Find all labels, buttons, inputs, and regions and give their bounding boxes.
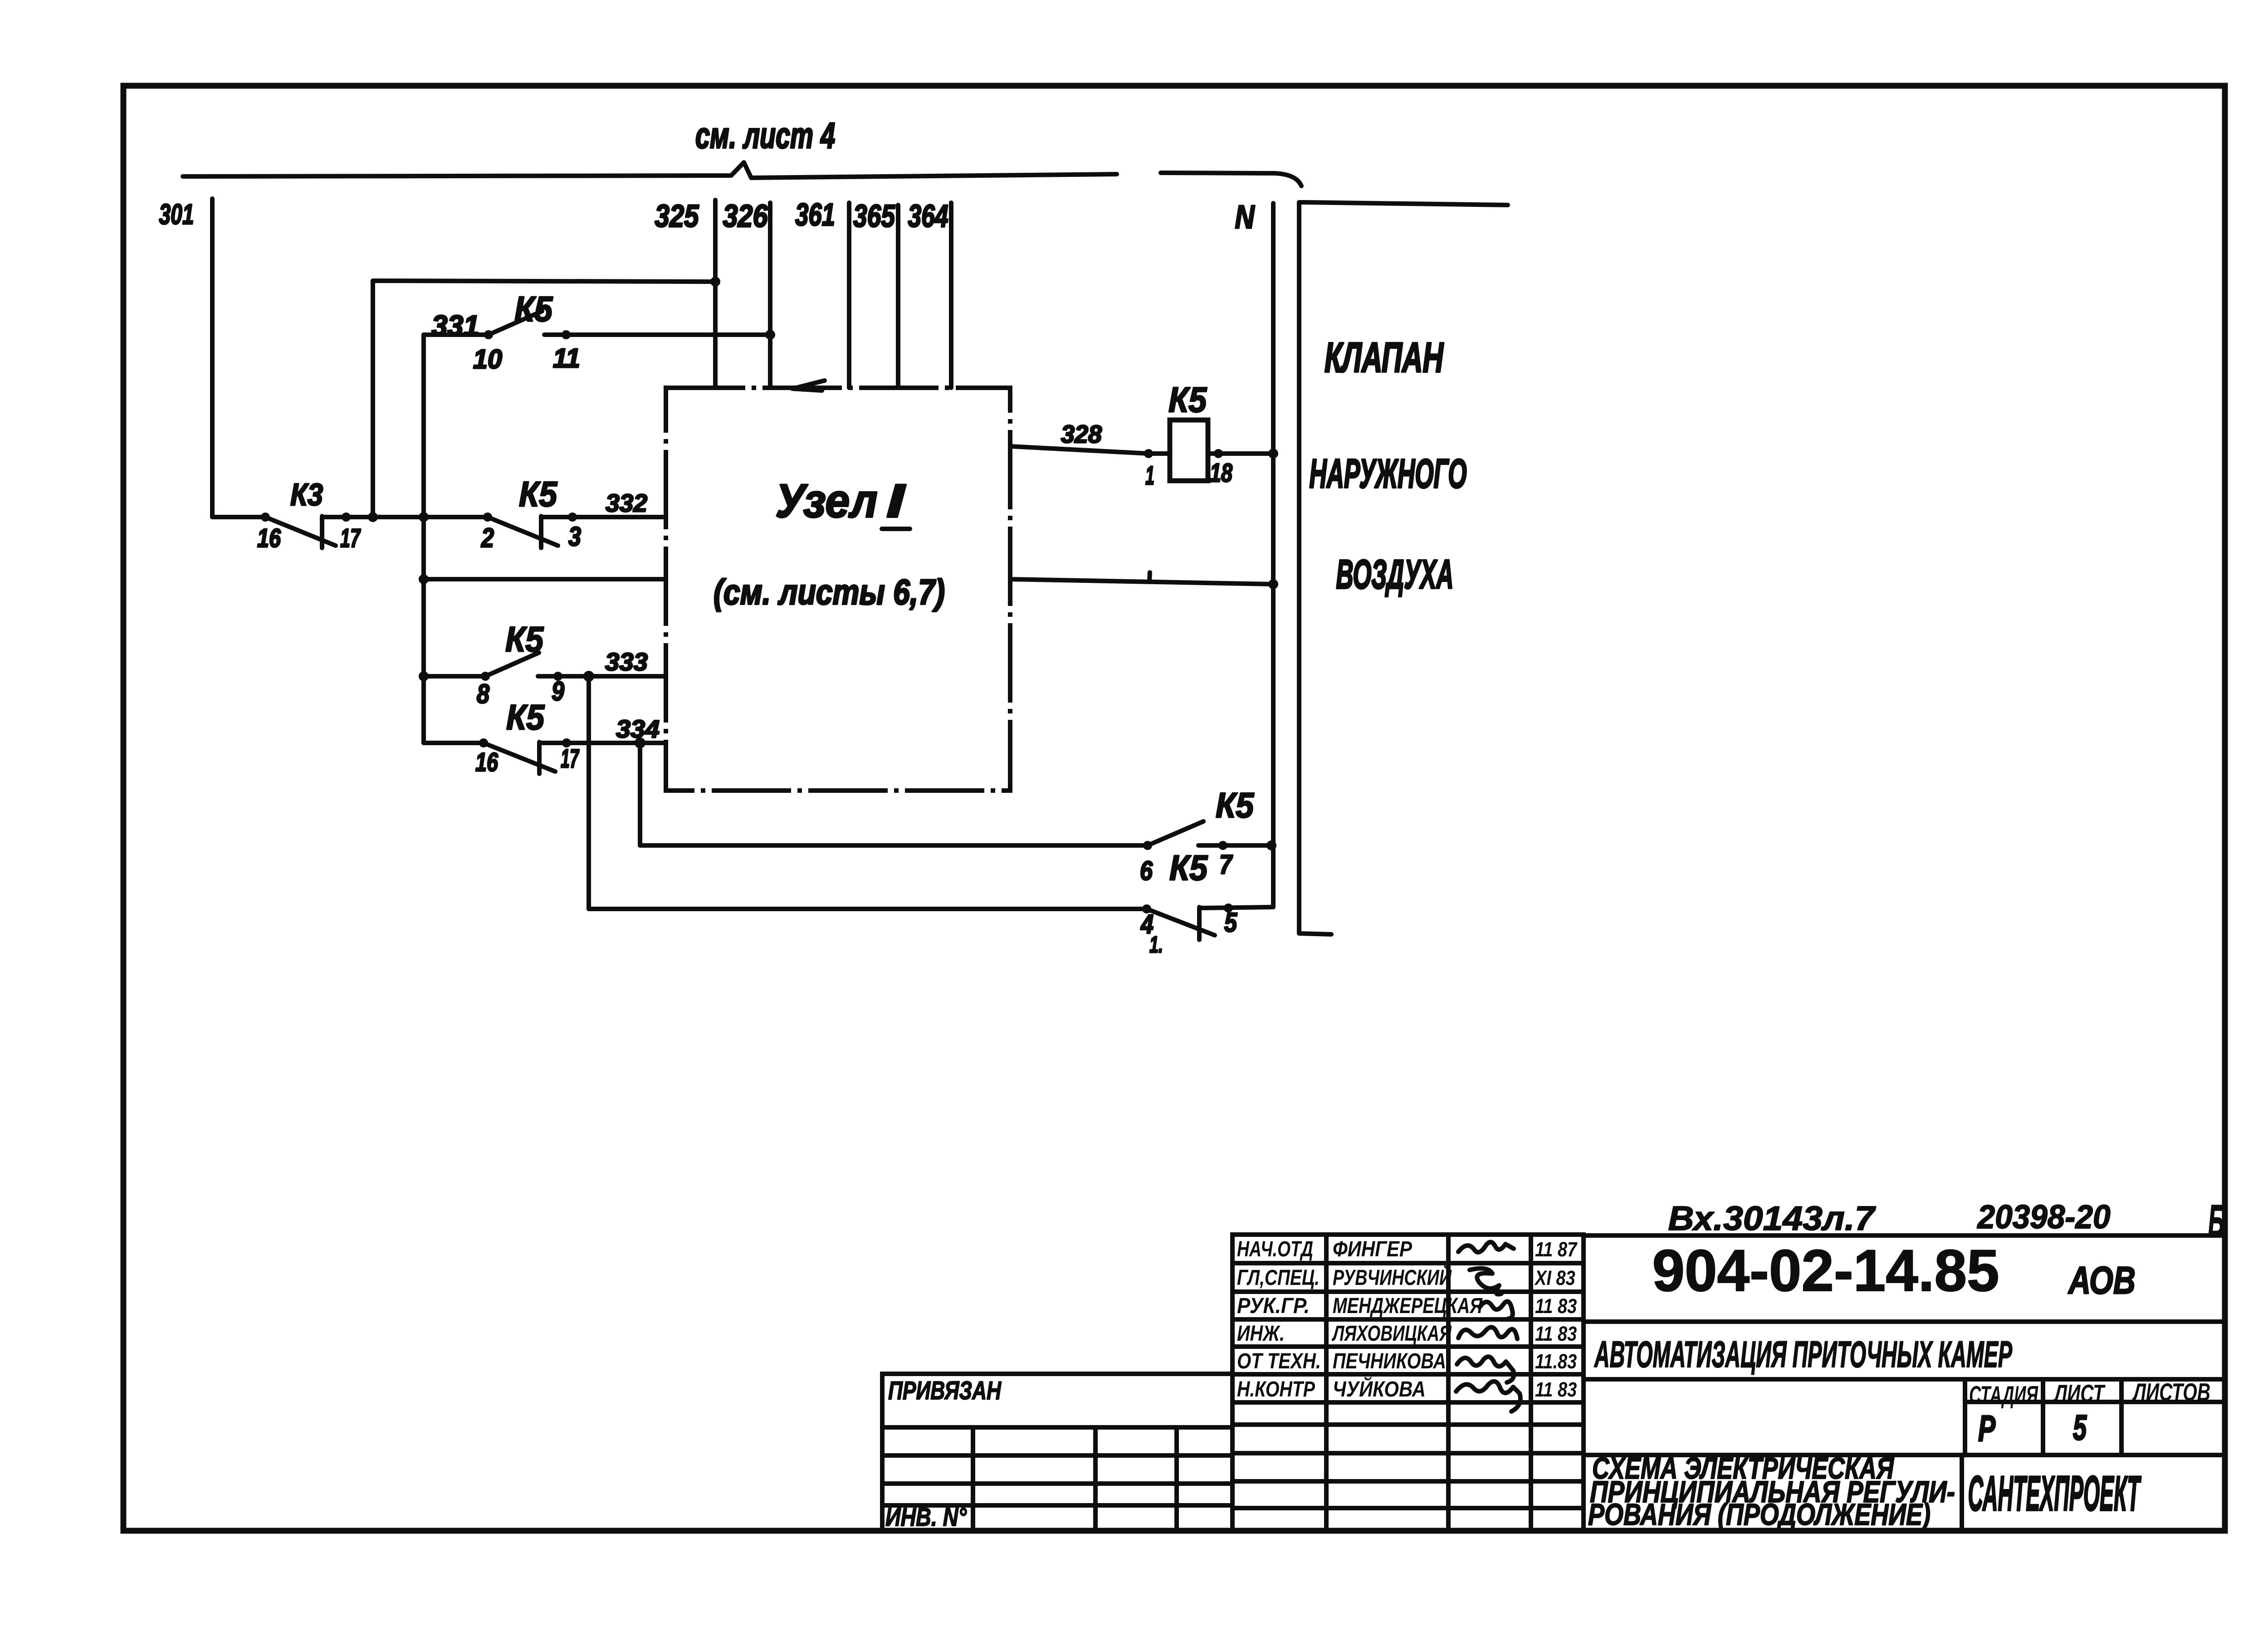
- pin 18 dot: [1214, 449, 1223, 458]
- svg-text:ЛИСТ: ЛИСТ: [2053, 1380, 2106, 1408]
- svg-text:325: 325: [655, 198, 699, 234]
- contact K5 6-7 (NO): [1143, 821, 1227, 850]
- svg-text:НАЧ.ОТД: НАЧ.ОТД: [1237, 1237, 1313, 1261]
- wire row 332 from 301: [212, 515, 265, 519]
- svg-text:328: 328: [1061, 420, 1102, 449]
- wire bus 326: [768, 203, 772, 388]
- svg-text:САНТЕХПРОЕКТ: САНТЕХПРОЕКТ: [1968, 1465, 2141, 1521]
- svg-text:ЛИСТОВ: ЛИСТОВ: [2132, 1379, 2210, 1406]
- pin 5: [1224, 907, 1237, 938]
- wire row 334 left: [424, 741, 484, 745]
- label naruzhnogo: [1310, 451, 1467, 497]
- title block main boxes grid: [1584, 1235, 2224, 1530]
- value sheet 5: [2073, 1408, 2087, 1448]
- note see sheet 4: [695, 115, 835, 156]
- svg-text:11 83: 11 83: [1535, 1294, 1577, 1318]
- svg-text:XI 83: XI 83: [1534, 1266, 1575, 1289]
- wire bus 364: [949, 203, 953, 388]
- sig row 2 title: [1237, 1266, 1320, 1290]
- node N: [1235, 199, 1255, 235]
- wire sheet-4 reference line (left segment with break mark): [183, 162, 1117, 178]
- contact K5 8-9 (NO): [481, 653, 562, 681]
- wire 328 from box: [1010, 446, 1149, 454]
- pin 17 (row 334): [561, 744, 580, 773]
- sig row 3 title: [1237, 1294, 1310, 1318]
- contact K5 10-11 (NO): [484, 311, 571, 339]
- svg-text:ФИНГЕР: ФИНГЕР: [1333, 1237, 1413, 1261]
- contact K5 4-5 (NC): [1142, 903, 1233, 940]
- svg-text:365: 365: [853, 198, 895, 234]
- svg-text:АОВ: АОВ: [2068, 1259, 2136, 1302]
- svg-text:РУК.ГР.: РУК.ГР.: [1237, 1294, 1310, 1318]
- svg-text:N: N: [1235, 199, 1255, 235]
- node 326: [723, 198, 768, 234]
- svg-text:17: 17: [340, 524, 361, 553]
- svg-text:ВОЗДУХА: ВОЗДУХА: [1336, 552, 1454, 597]
- pin 2: [481, 522, 494, 553]
- svg-text:333: 333: [605, 648, 648, 676]
- svg-text:ПЕЧНИКОВА: ПЕЧНИКОВА: [1333, 1349, 1446, 1373]
- label K5 (contact 10-11): [514, 289, 553, 328]
- svg-text:2: 2: [481, 522, 494, 553]
- svg-text:17: 17: [561, 744, 580, 773]
- label K5 (contact 6-7): [1216, 785, 1254, 825]
- pin 17: [340, 524, 361, 553]
- label K5 (contact 4-5): [1169, 848, 1208, 887]
- wire sheet-4 reference line (right segment with hook): [1161, 173, 1301, 186]
- pin 10: [473, 344, 502, 374]
- junction 333 rail C: [583, 671, 594, 682]
- svg-text:332: 332: [606, 489, 647, 518]
- junction 331 on bus 326: [765, 330, 775, 340]
- label Klapan: [1325, 334, 1444, 381]
- svg-text:НАРУЖНОГО: НАРУЖНОГО: [1310, 451, 1467, 497]
- pin 11: [553, 343, 580, 373]
- svg-text:16: 16: [257, 524, 281, 553]
- svg-text:20398-20: 20398-20: [1977, 1198, 2110, 1235]
- sig row 5 date: [1535, 1350, 1577, 1373]
- pin 3: [568, 521, 581, 552]
- svg-text:КЛАПАН: КЛАПАН: [1325, 334, 1444, 381]
- junction rail B row 332: [419, 512, 429, 522]
- wire row 4-5: [589, 907, 1147, 911]
- sig row 5 name: [1333, 1349, 1446, 1373]
- svg-text:301: 301: [159, 198, 194, 230]
- pin 16: [257, 524, 281, 553]
- label K5 (contact 16-17): [506, 697, 545, 737]
- label K3: [290, 477, 323, 512]
- signature squiggle row4: [1458, 1327, 1517, 1339]
- wire rail A to bus 325: [373, 281, 715, 517]
- sig row 4 title: [1237, 1322, 1285, 1346]
- header Listov: [2132, 1379, 2210, 1406]
- sig row 1 name: [1333, 1237, 1413, 1261]
- svg-text:РУВЧИНСКИЙ: РУВЧИНСКИЙ: [1333, 1265, 1452, 1289]
- svg-text:11: 11: [553, 343, 580, 373]
- svg-text:11 83: 11 83: [1535, 1322, 1577, 1345]
- svg-text:I: I: [886, 474, 906, 527]
- wire bus 365: [896, 205, 900, 388]
- wire row2 left: [424, 577, 666, 581]
- stray mark 1.: [1149, 932, 1163, 958]
- contact K3 16-17 (NC): [261, 513, 351, 548]
- pin 4: [1140, 909, 1154, 939]
- doc number 904-02-14.85: [1652, 1237, 1999, 1304]
- svg-text:331: 331: [432, 310, 479, 342]
- label K5 (contact 8-9): [505, 619, 544, 659]
- stray tick on row2 wire: [1149, 572, 1150, 581]
- svg-text:7: 7: [1219, 849, 1233, 879]
- label Uzel: [776, 474, 878, 527]
- title block signature table grid: [1232, 1235, 1584, 1530]
- svg-text:К5: К5: [519, 474, 557, 513]
- title block left table grid: [882, 1374, 2224, 1530]
- svg-text:904-02-14.85: 904-02-14.85: [1652, 1237, 1999, 1304]
- signature squiggle row3: [1480, 1302, 1513, 1319]
- wire row 6-7: [640, 843, 1148, 848]
- svg-text:К5: К5: [514, 289, 553, 328]
- junction rail B row 333: [419, 671, 429, 681]
- wire bus 361: [847, 203, 851, 388]
- svg-text:Р: Р: [1978, 1409, 1996, 1449]
- signature squiggle row6: [1456, 1382, 1520, 1411]
- junction 6-7 on N: [1266, 840, 1276, 850]
- note B sheet mark: [2208, 1196, 2224, 1246]
- contact K5 16-17 (NC): [479, 738, 571, 774]
- svg-text:К5: К5: [1169, 848, 1208, 887]
- node 328: [1061, 420, 1102, 449]
- sig row 5 title: [1237, 1349, 1321, 1373]
- wire 333 left: [424, 674, 485, 679]
- svg-text:5: 5: [2073, 1408, 2087, 1448]
- svg-text:ЧУЙКОВА: ЧУЙКОВА: [1333, 1376, 1426, 1401]
- signature squiggle row1: [1458, 1242, 1514, 1252]
- pin 16 (row 334): [475, 748, 499, 777]
- pin 8: [477, 679, 490, 709]
- junction rail B row2: [419, 574, 429, 584]
- sig row 4 name: [1331, 1322, 1452, 1346]
- wire 4-5 to N: [1199, 907, 1271, 908]
- sig row 4 date: [1535, 1322, 1577, 1345]
- sig row 3 name: [1333, 1294, 1483, 1318]
- svg-text:364: 364: [908, 198, 948, 234]
- svg-text:Б: Б: [2208, 1196, 2224, 1246]
- svg-text:3: 3: [568, 521, 581, 552]
- label see sheets 6,7: [714, 572, 945, 611]
- sig row 2 name: [1333, 1265, 1452, 1289]
- note 20398-20: [1977, 1198, 2110, 1235]
- sig row 6 title: [1237, 1377, 1315, 1401]
- sheet title line 2: [1590, 1475, 1955, 1509]
- node 364: [908, 198, 948, 234]
- wire rail D down: [638, 743, 642, 845]
- contact K5 2-3 (NC): [483, 513, 577, 548]
- box Uzel I: [666, 388, 1010, 791]
- svg-text:16: 16: [475, 748, 499, 777]
- header List: [2053, 1380, 2106, 1408]
- pin 18: [1210, 459, 1232, 488]
- pin 7: [1219, 849, 1233, 879]
- svg-text:1: 1: [1145, 461, 1154, 490]
- wire rail C down: [587, 676, 591, 909]
- node 365: [853, 198, 895, 234]
- svg-text:Узел: Узел: [776, 474, 878, 527]
- junction rail A on bus 325: [710, 277, 720, 287]
- svg-text:11.83: 11.83: [1535, 1350, 1577, 1373]
- svg-text:ОТ ТЕХН.: ОТ ТЕХН.: [1237, 1349, 1321, 1373]
- pin 1: [1145, 461, 1154, 490]
- svg-text:9: 9: [552, 676, 564, 706]
- wire coil to N: [1208, 451, 1273, 456]
- svg-text:К5: К5: [1216, 785, 1254, 825]
- sig row 2 date: [1534, 1266, 1575, 1289]
- svg-text:К5: К5: [506, 697, 545, 737]
- pin 9: [552, 676, 564, 706]
- bracket for valve group: [1299, 202, 1508, 934]
- svg-text:361: 361: [795, 197, 835, 232]
- svg-text:10: 10: [473, 344, 502, 374]
- sig row 6 date: [1535, 1378, 1577, 1401]
- doc suffix AOV: [2068, 1259, 2136, 1302]
- svg-text:ЛЯХОВИЦКАЯ: ЛЯХОВИЦКАЯ: [1331, 1322, 1452, 1346]
- signature squiggle row2: [1470, 1268, 1501, 1294]
- wire 6-7 to N: [1198, 843, 1271, 848]
- node 361: [795, 197, 835, 232]
- project name: [1594, 1333, 2013, 1375]
- wire bus 325: [713, 200, 718, 388]
- sig row 1 date: [1535, 1238, 1578, 1261]
- svg-text:1.: 1.: [1149, 932, 1163, 958]
- svg-text:АВТОМАТИЗАЦИЯ ПРИТОЧНЫХ КАМЕР: АВТОМАТИЗАЦИЯ ПРИТОЧНЫХ КАМЕР: [1594, 1333, 2013, 1375]
- wire 333 to box: [538, 674, 666, 679]
- svg-text:(см. листы 6,7): (см. листы 6,7): [714, 572, 945, 611]
- label Inv No: [885, 1503, 967, 1532]
- label K5 (contact 2-3): [519, 474, 557, 513]
- pin 1 junction: [1144, 449, 1153, 458]
- wire 332 to box: [541, 515, 666, 519]
- svg-text:МЕНДЖЕРЕЦКАЯ: МЕНДЖЕРЕЦКАЯ: [1333, 1294, 1483, 1318]
- svg-text:6: 6: [1140, 855, 1153, 886]
- svg-text:326: 326: [723, 198, 768, 234]
- sig row 6 name: [1333, 1376, 1426, 1401]
- svg-text:ИНВ. N°: ИНВ. N°: [885, 1503, 967, 1532]
- svg-text:К5: К5: [505, 619, 544, 659]
- junction 328 on N: [1268, 449, 1278, 459]
- header Stadiya: [1969, 1382, 2038, 1409]
- wire 334 to box: [539, 741, 666, 745]
- svg-text:ПРИВЯЗАН: ПРИВЯЗАН: [888, 1376, 1002, 1405]
- wire 328 to coil: [1149, 451, 1170, 456]
- value stage P: [1978, 1409, 1996, 1449]
- node 334: [616, 715, 660, 743]
- wire 331 left: [424, 332, 489, 337]
- note Vh.30143l.7: [1668, 1200, 1877, 1238]
- node 332: [606, 489, 647, 518]
- relay coil K5: [1170, 420, 1208, 481]
- wire bus N: [1271, 203, 1276, 907]
- node 331: [432, 310, 479, 342]
- svg-text:СТАДИЯ: СТАДИЯ: [1969, 1382, 2038, 1409]
- svg-text:Н.КОНТР: Н.КОНТР: [1237, 1377, 1315, 1401]
- svg-text:11 83: 11 83: [1535, 1378, 1577, 1401]
- label vozdukha: [1336, 552, 1454, 597]
- junction rail A row 332: [368, 512, 378, 522]
- svg-text:см. лист 4: см. лист 4: [695, 115, 835, 156]
- node 325: [655, 198, 699, 234]
- svg-text:К3: К3: [290, 477, 323, 512]
- svg-text:8: 8: [477, 679, 490, 709]
- sheet title line 3: [1588, 1498, 1931, 1532]
- label K5 (coil): [1168, 380, 1207, 419]
- signature squiggle row5: [1457, 1357, 1514, 1382]
- svg-text:5: 5: [1224, 907, 1237, 938]
- wire 301 vertical: [210, 199, 215, 517]
- wire rail B vertical: [421, 335, 426, 743]
- arrow mark on box top: [792, 381, 825, 391]
- sig row 3 date: [1535, 1294, 1577, 1318]
- label Uzel roman numeral I: [886, 474, 906, 527]
- svg-text:ИНЖ.: ИНЖ.: [1237, 1322, 1285, 1346]
- node 333: [605, 648, 648, 676]
- svg-text:К5: К5: [1168, 380, 1207, 419]
- svg-text:11 87: 11 87: [1535, 1238, 1578, 1261]
- sig row 1 title: [1237, 1237, 1313, 1261]
- org SANTEHPROEKT: [1968, 1465, 2141, 1521]
- node 301: [159, 198, 194, 230]
- pin 6: [1140, 855, 1153, 886]
- wire row2 right to N: [1010, 579, 1273, 584]
- label Privyazan: [888, 1376, 1002, 1405]
- wire 331 to bus 326: [544, 332, 770, 337]
- junction row2 on N: [1268, 579, 1278, 589]
- svg-text:РОВАНИЯ (ПРОДОЛЖЕНИЕ): РОВАНИЯ (ПРОДОЛЖЕНИЕ): [1588, 1498, 1931, 1532]
- sheet title line 1: [1592, 1451, 1894, 1485]
- junction 334 rail D: [635, 737, 645, 748]
- svg-text:Вх.30143л.7: Вх.30143л.7: [1668, 1200, 1877, 1238]
- svg-text:ГЛ,СПЕЦ.: ГЛ,СПЕЦ.: [1237, 1266, 1320, 1290]
- wire row 332 middle: [322, 515, 488, 519]
- svg-text:18: 18: [1210, 459, 1232, 488]
